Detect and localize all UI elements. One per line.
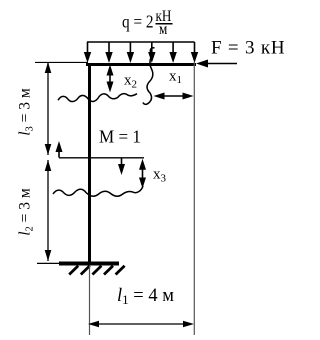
cut squiggle for x1 [143, 48, 155, 105]
cut squiggle for x3 [53, 186, 143, 196]
load arrow 4 [148, 42, 155, 63]
svg-text:q = 2: q = 2 [122, 11, 154, 31]
svg-text:M = 1: M = 1 [99, 126, 141, 147]
dimension l2 [45, 160, 52, 261]
label l2 = 3 м [17, 188, 36, 236]
beam (top horizontal member) [86, 63, 196, 66]
top extension tick [35, 61, 88, 63]
support hatch 2 [81, 266, 90, 275]
support hatch 1 [69, 266, 78, 275]
fixed support bar [59, 262, 119, 266]
right extension line [193, 62, 195, 335]
dimension l1 arrow [88, 321, 194, 327]
dimension l3 [45, 62, 52, 155]
load arrow 1 [84, 42, 91, 63]
load arrow 2 [105, 42, 112, 63]
moment couple: up arrow [56, 141, 63, 158]
bottom extension tick [37, 262, 60, 264]
label q = 2 кН/м [122, 8, 173, 38]
support hatch 4 [104, 266, 113, 275]
load arrow 6 [191, 42, 198, 63]
svg-text:м: м [159, 21, 167, 38]
svg-text:F = 3 кН: F = 3 кН [211, 38, 285, 59]
moment couple: down arrow [118, 158, 125, 176]
support hatch 3 [92, 266, 101, 275]
column (vertical member) [88, 63, 91, 262]
load arrow 3 [127, 42, 134, 63]
x3 dimension arrow [139, 159, 146, 189]
load arrow 5 [169, 42, 176, 63]
force F arrow [196, 60, 237, 68]
x2 dimension arrow [107, 65, 114, 93]
distributed load line [87, 41, 195, 43]
label l3 = 3 м [17, 88, 36, 136]
x1 dimension arrow [154, 93, 194, 100]
support hatch 5 [116, 266, 125, 275]
left extension line below support [89, 266, 91, 336]
cut squiggle for x2 [58, 94, 137, 102]
moment line [59, 157, 144, 159]
